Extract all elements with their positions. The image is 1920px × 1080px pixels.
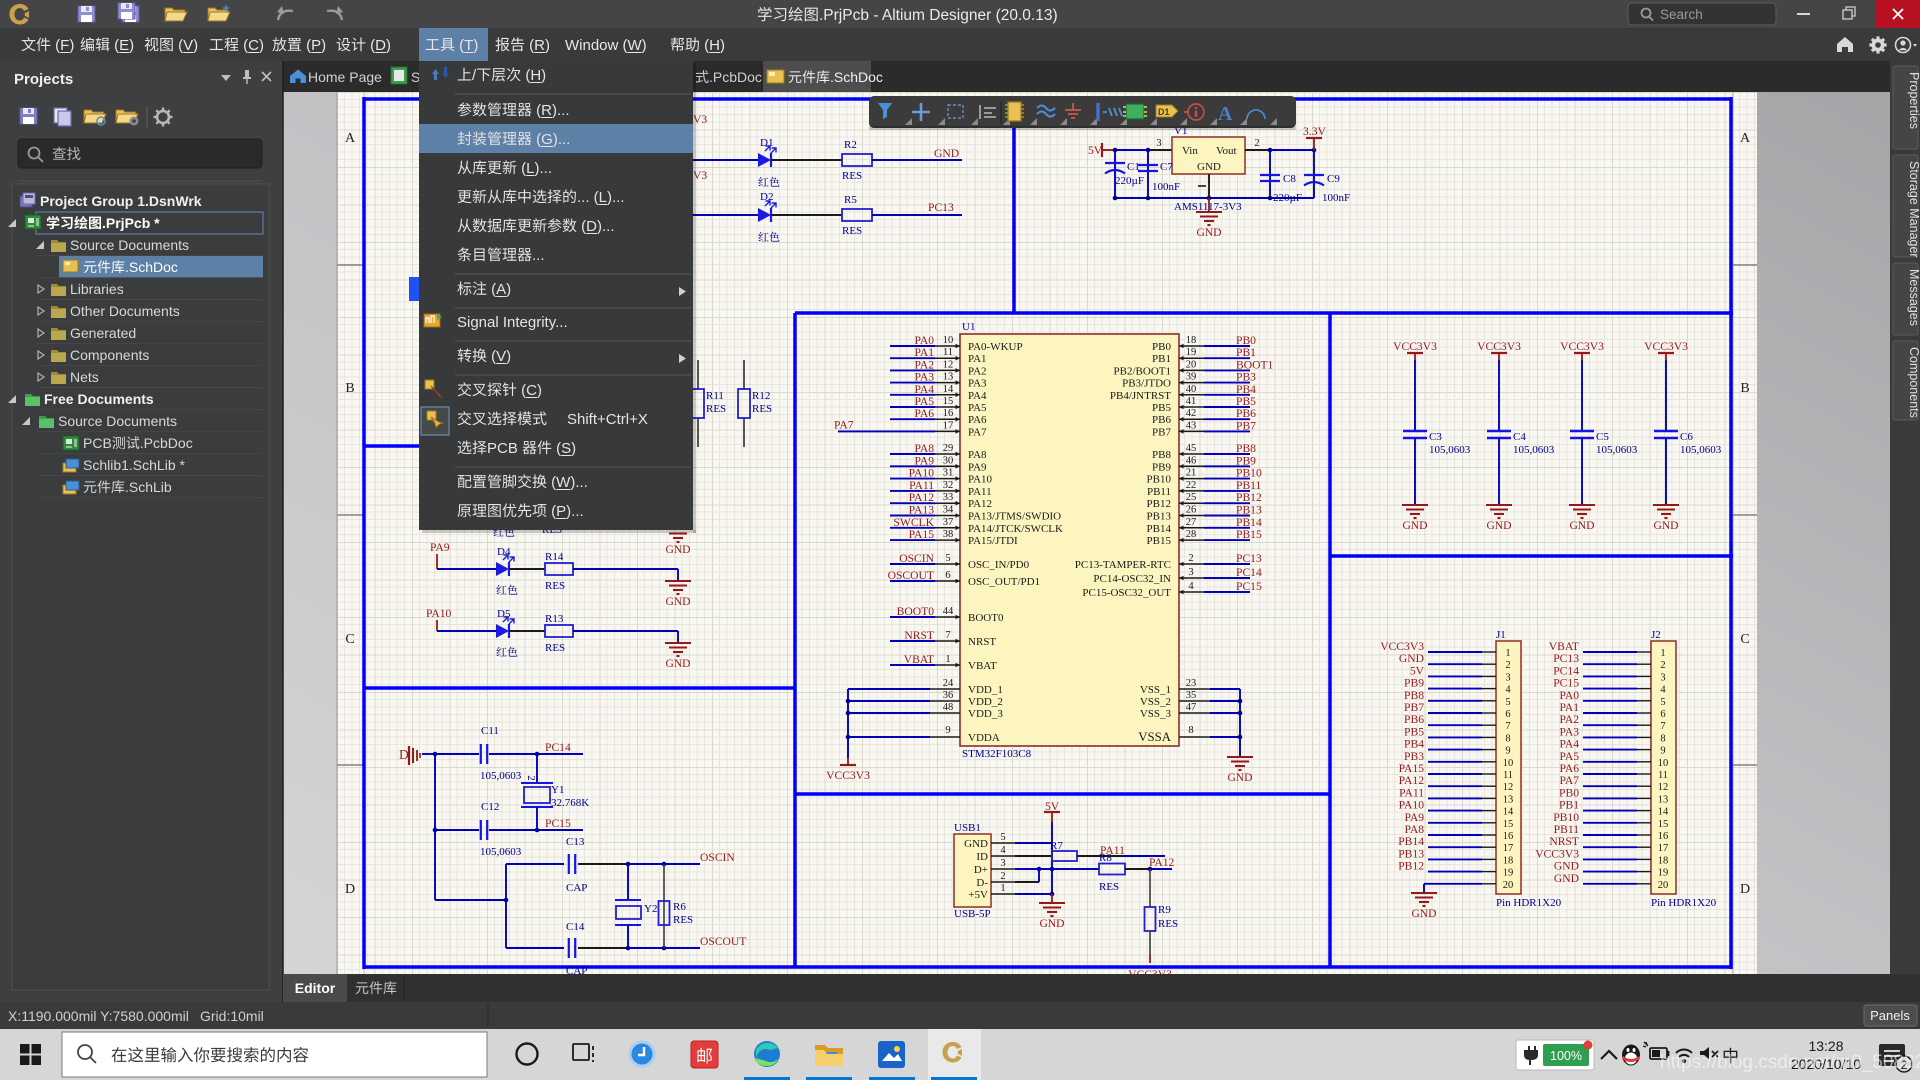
wire J2.8 bbox=[1583, 736, 1637, 738]
svg-text:2: 2 bbox=[1660, 660, 1665, 671]
svg-text:19: 19 bbox=[1186, 347, 1197, 358]
dropdown underline bbox=[556, 518, 566, 520]
stub J2.20 bbox=[1637, 883, 1651, 885]
tree icon dsnwrk bbox=[20, 193, 35, 207]
svg-text:3: 3 bbox=[1505, 672, 1510, 683]
svg-text:Signal Integrity...: Signal Integrity... bbox=[457, 314, 568, 331]
svg-text:PB10: PB10 bbox=[1236, 467, 1262, 480]
svg-text:GND: GND bbox=[1486, 519, 1511, 532]
svg-text:Components: Components bbox=[70, 347, 149, 363]
svg-text:7: 7 bbox=[945, 630, 950, 641]
svg-text:(P): (P) bbox=[302, 37, 326, 54]
svg-text:J1: J1 bbox=[1496, 629, 1506, 641]
wire to C7/Vin bbox=[1115, 149, 1147, 151]
y2 plate top bbox=[615, 899, 641, 901]
wire J2.14 bbox=[1583, 810, 1637, 812]
btn restore bbox=[1843, 10, 1852, 19]
stub J1.9 bbox=[1482, 749, 1496, 751]
wire R14-GND bbox=[573, 568, 678, 570]
svg-text:VCC3V3: VCC3V3 bbox=[1535, 847, 1579, 860]
svg-text:(W)...: (W)... bbox=[547, 474, 588, 491]
svg-text:OSCOUT: OSCOUT bbox=[700, 935, 746, 948]
svg-text:PA13/JTMS/SWDIO: PA13/JTMS/SWDIO bbox=[968, 511, 1061, 523]
svg-text:(F): (F) bbox=[51, 37, 74, 54]
tree icon folder generated bbox=[51, 328, 66, 340]
wire D- up bbox=[1038, 869, 1040, 882]
document tab bar bbox=[283, 61, 1890, 92]
ground C6 bbox=[1653, 504, 1679, 506]
pin USB D- bbox=[991, 881, 1015, 883]
wire R5-PC13 bbox=[872, 214, 962, 216]
svg-text:GND: GND bbox=[934, 147, 959, 160]
svg-text:PA2: PA2 bbox=[914, 358, 934, 371]
svg-text:R9: R9 bbox=[1158, 904, 1171, 916]
svg-text:A: A bbox=[345, 131, 356, 146]
dropdown separator bbox=[455, 273, 691, 275]
dropdown underline bbox=[541, 117, 552, 119]
pin PC15 bbox=[1179, 591, 1204, 593]
svg-text:PA7: PA7 bbox=[834, 418, 854, 431]
dropdown separator bbox=[455, 307, 691, 309]
menu 文件 (F) bbox=[22, 37, 36, 51]
pin OSC_OUT bbox=[935, 580, 960, 582]
capacitor C12 bbox=[480, 820, 482, 840]
svg-text:34: 34 bbox=[943, 505, 954, 516]
svg-text:PA8: PA8 bbox=[1404, 823, 1424, 836]
ground D5 bbox=[665, 642, 691, 644]
margin tick left bbox=[337, 264, 364, 266]
taskbar edge bbox=[754, 1041, 780, 1067]
svg-text:.PcbDoc: .PcbDoc bbox=[709, 69, 762, 85]
tool select rect bbox=[948, 105, 963, 118]
capacitor C6 bbox=[1654, 430, 1678, 432]
LED D1 bbox=[758, 153, 771, 167]
svg-text:C14: C14 bbox=[566, 921, 585, 933]
svg-text:25: 25 bbox=[1186, 492, 1197, 503]
pin PB group2 PB11 bbox=[1179, 490, 1204, 492]
svg-text:(D): (D) bbox=[366, 37, 391, 54]
projects panel bbox=[0, 61, 283, 1002]
wire OSCIN bbox=[628, 863, 700, 865]
pin PA group2 PA15/JTDI bbox=[935, 539, 960, 541]
svg-text:37: 37 bbox=[943, 517, 954, 528]
bottom tab sep bbox=[403, 977, 405, 999]
tool place wire bbox=[1037, 106, 1055, 117]
taskbar underline bbox=[869, 1077, 915, 1080]
menu underline bbox=[119, 52, 129, 54]
svg-text:21: 21 bbox=[1186, 468, 1197, 479]
wire J1.9 bbox=[1428, 749, 1482, 751]
svg-text:3: 3 bbox=[1000, 858, 1005, 869]
stub J1.3 bbox=[1482, 675, 1496, 677]
wire to gnd sym bbox=[1208, 198, 1210, 212]
resistor R11 bbox=[692, 389, 704, 418]
svg-text:220µF: 220µF bbox=[1115, 175, 1144, 187]
svg-text:Vin: Vin bbox=[1182, 145, 1198, 157]
wire Vout to 3.3V bbox=[1270, 149, 1314, 151]
svg-text:C5: C5 bbox=[1596, 431, 1609, 443]
svg-text:10: 10 bbox=[1503, 758, 1514, 769]
wire divider usb top bbox=[795, 792, 1330, 796]
wire J2.1 bbox=[1583, 651, 1637, 653]
stub J2.4 bbox=[1637, 688, 1651, 690]
svg-text:PA4: PA4 bbox=[968, 390, 987, 402]
svg-text:PB8: PB8 bbox=[1404, 689, 1424, 702]
svg-text:2: 2 bbox=[1254, 138, 1259, 149]
svg-text:BOOT0: BOOT0 bbox=[897, 605, 935, 618]
wire PA12 bbox=[1150, 868, 1172, 870]
svg-text:3: 3 bbox=[1188, 567, 1193, 578]
svg-text:Pin HDR1X20: Pin HDR1X20 bbox=[1496, 897, 1562, 909]
svg-text:PB0: PB0 bbox=[1152, 341, 1171, 353]
svg-text:3: 3 bbox=[1660, 672, 1665, 683]
sheet edge line bbox=[336, 92, 338, 974]
svg-text:PA5: PA5 bbox=[968, 402, 987, 414]
svg-text:PA12: PA12 bbox=[909, 491, 935, 504]
stub gnd usb bbox=[1051, 894, 1053, 903]
svg-text:PC14: PC14 bbox=[1553, 664, 1579, 677]
svg-text:PB5: PB5 bbox=[1152, 402, 1171, 414]
status sep bbox=[487, 1004, 489, 1027]
wire usb D- bbox=[1015, 881, 1039, 883]
pin VDD_1 bbox=[930, 688, 960, 690]
svg-text:10: 10 bbox=[943, 335, 954, 346]
menu underline bbox=[709, 52, 720, 54]
svg-text:20: 20 bbox=[1658, 880, 1669, 891]
wires VSS rail bbox=[1210, 688, 1240, 690]
svg-text:PA7: PA7 bbox=[968, 426, 987, 438]
wire J2.12 bbox=[1583, 785, 1637, 787]
wire J1.20 bbox=[1424, 883, 1482, 885]
svg-text:R2: R2 bbox=[844, 139, 857, 151]
svg-text:R6: R6 bbox=[673, 901, 686, 913]
pin VSSA bbox=[1179, 736, 1210, 738]
right tab Storage Manager bg bbox=[1893, 155, 1918, 257]
pin PA group1 PA4 bbox=[935, 394, 960, 396]
icon redo bbox=[327, 11, 342, 20]
wire divider top-middle bbox=[1012, 99, 1016, 313]
svg-text:(A): (A) bbox=[487, 281, 511, 298]
dropdown highlight bbox=[419, 124, 693, 153]
stub J2.2 bbox=[1637, 663, 1651, 665]
junctions VSS bbox=[1238, 699, 1243, 704]
taskbar task view bbox=[573, 1044, 593, 1062]
panel search icon bbox=[29, 148, 40, 159]
svg-text:.PrjPcb *: .PrjPcb * bbox=[102, 215, 160, 231]
tool no-erc bbox=[1188, 104, 1204, 120]
stub J1.17 bbox=[1482, 846, 1496, 848]
floating toolbar bg bbox=[869, 96, 1296, 128]
panel close bbox=[262, 72, 271, 81]
svg-text:8: 8 bbox=[1660, 733, 1665, 744]
svg-text:1: 1 bbox=[1505, 648, 1510, 659]
taskbar underline bbox=[931, 1077, 977, 1080]
svg-text:Properties: Properties bbox=[1907, 72, 1920, 129]
tray wifi bbox=[1676, 1050, 1692, 1063]
svg-text:PA9: PA9 bbox=[968, 461, 987, 473]
svg-text:VDDA: VDDA bbox=[968, 732, 1000, 744]
window title bbox=[758, 7, 772, 21]
svg-text:RES: RES bbox=[752, 403, 772, 415]
svg-text:PA0-WKUP: PA0-WKUP bbox=[968, 341, 1023, 353]
pin PB group2 PB8 bbox=[1179, 453, 1204, 455]
svg-text:7: 7 bbox=[1660, 721, 1665, 732]
wire to PC14 bbox=[537, 753, 583, 755]
dropdown item 从数据库更新参数 bbox=[458, 219, 472, 232]
svg-text:D1: D1 bbox=[760, 137, 773, 149]
tray qq bbox=[1622, 1045, 1640, 1066]
margin tick left bbox=[337, 764, 364, 766]
dropdown item 上/下层次 bbox=[458, 68, 471, 81]
wire D2 anode bbox=[693, 214, 758, 216]
tool probe bbox=[1096, 103, 1100, 121]
svg-text:15: 15 bbox=[1658, 819, 1669, 830]
svg-text:12: 12 bbox=[943, 359, 954, 370]
junction y1 top bbox=[535, 752, 540, 757]
tool move bbox=[912, 103, 930, 121]
svg-text:...: ... bbox=[532, 247, 545, 264]
wire R7 right bbox=[1077, 855, 1122, 857]
stub J2.16 bbox=[1637, 834, 1651, 836]
svg-text:PB11: PB11 bbox=[1554, 823, 1580, 836]
wire J1.11 bbox=[1428, 773, 1482, 775]
stub PA9 bbox=[436, 554, 438, 569]
pin VSS_2 bbox=[1179, 700, 1210, 702]
wire 5V red bbox=[1102, 149, 1115, 151]
bottom tab bar bbox=[283, 974, 1920, 1002]
stub J1.2 bbox=[1482, 663, 1496, 665]
svg-text:PB6: PB6 bbox=[1236, 407, 1256, 420]
tree expander prj bbox=[8, 219, 16, 227]
svg-text:Other Documents: Other Documents bbox=[70, 303, 180, 319]
svg-text:PB6: PB6 bbox=[1404, 713, 1424, 726]
svg-text:D: D bbox=[399, 747, 409, 762]
icon home tab bbox=[290, 70, 306, 84]
svg-text:16: 16 bbox=[1503, 831, 1514, 842]
svg-text:R13: R13 bbox=[545, 613, 564, 625]
pin PB group1 PB4/JNTRST bbox=[1179, 394, 1204, 396]
wire divider left y688 bbox=[364, 686, 795, 690]
wire OSCOUT bbox=[628, 947, 700, 949]
wire divider vertical x1330 bbox=[1328, 313, 1332, 967]
svg-text:Components: Components bbox=[1907, 347, 1920, 418]
pin PB group2 PB12 bbox=[1179, 502, 1204, 504]
svg-text:44: 44 bbox=[943, 606, 954, 617]
tree focus rect bbox=[36, 212, 263, 234]
wire J2.20 bbox=[1583, 883, 1637, 885]
svg-text:PA10: PA10 bbox=[968, 474, 993, 486]
pin PB group2 PB9 bbox=[1179, 465, 1204, 467]
wire J2.10 bbox=[1583, 761, 1637, 763]
stub J2.12 bbox=[1637, 785, 1651, 787]
stub J2.19 bbox=[1637, 871, 1651, 873]
taskbar photos bbox=[878, 1041, 905, 1068]
pin PA group2 PA8 bbox=[935, 453, 960, 455]
svg-text:PB9: PB9 bbox=[1236, 454, 1256, 467]
pin VDD_3 bbox=[930, 712, 960, 714]
panel search box bbox=[18, 139, 262, 168]
svg-text:PB7: PB7 bbox=[1404, 701, 1424, 714]
svg-text:PB0: PB0 bbox=[1236, 334, 1256, 347]
svg-text:GND: GND bbox=[1411, 907, 1436, 920]
svg-text:26: 26 bbox=[1186, 505, 1197, 516]
svg-text:GND: GND bbox=[1554, 872, 1579, 885]
svg-text:RES: RES bbox=[1099, 881, 1119, 893]
svg-text:GND: GND bbox=[1569, 519, 1594, 532]
wire J2.7 bbox=[1583, 724, 1637, 726]
junctions OSCOUT bbox=[626, 946, 631, 951]
dropdown item 标注 bbox=[457, 281, 471, 295]
stub J2.17 bbox=[1637, 846, 1651, 848]
svg-text:18: 18 bbox=[1658, 855, 1669, 866]
svg-text:VBAT: VBAT bbox=[904, 653, 934, 666]
svg-text:R12: R12 bbox=[752, 390, 770, 402]
svg-text:VDD_2: VDD_2 bbox=[968, 696, 1003, 708]
wire J2.6 bbox=[1583, 712, 1637, 714]
label D5 red bbox=[496, 647, 506, 656]
ground C3 bbox=[1402, 504, 1428, 506]
svg-text:5V: 5V bbox=[1410, 664, 1425, 677]
wire D2-R5 bbox=[771, 214, 842, 216]
tree icon folder components bbox=[51, 350, 66, 362]
svg-text:PCB: PCB bbox=[487, 440, 522, 457]
pin VBAT bbox=[935, 664, 960, 666]
stub J2.11 bbox=[1637, 773, 1651, 775]
svg-text:Source Documents: Source Documents bbox=[70, 237, 189, 253]
svg-text:BOOT0: BOOT0 bbox=[968, 612, 1004, 624]
wire divider row2 top bbox=[795, 311, 1733, 315]
svg-text:VCC3V3: VCC3V3 bbox=[1380, 640, 1424, 653]
svg-text:PA6: PA6 bbox=[1559, 762, 1579, 775]
wire VSS vertical bbox=[1239, 689, 1241, 757]
dropdown underline bbox=[586, 233, 597, 235]
svg-text:RES: RES bbox=[706, 403, 726, 415]
svg-text:19: 19 bbox=[1658, 868, 1669, 879]
icon user bbox=[1896, 38, 1911, 53]
svg-text:X:1190.000mil Y:7580.000mil: X:1190.000mil Y:7580.000mil bbox=[8, 1008, 189, 1024]
title bar bbox=[0, 0, 1920, 28]
svg-text:5V: 5V bbox=[1088, 144, 1103, 157]
tree row schdoc bbox=[84, 261, 97, 273]
dropdown icon cross probe bbox=[425, 380, 442, 398]
resistor R12 bbox=[738, 389, 750, 418]
svg-text:17: 17 bbox=[1658, 843, 1669, 854]
svg-text:Home Page: Home Page bbox=[308, 69, 382, 85]
icon altium logo bbox=[10, 4, 30, 25]
svg-text:16: 16 bbox=[943, 408, 954, 419]
svg-text:PC13: PC13 bbox=[1236, 552, 1262, 565]
stub J1.15 bbox=[1482, 822, 1496, 824]
dropdown item 条目管理器... bbox=[458, 247, 472, 261]
wire J1.3 bbox=[1428, 675, 1482, 677]
wire R9 bottom bbox=[1149, 931, 1151, 955]
svg-text:(H): (H) bbox=[700, 37, 725, 54]
wire C14-OSCOUT bbox=[578, 947, 628, 949]
wire J1.2 bbox=[1428, 663, 1482, 665]
wire down gnd D5 bbox=[677, 631, 679, 643]
svg-text:OSCOUT: OSCOUT bbox=[888, 569, 934, 582]
svg-text:PB0: PB0 bbox=[1559, 786, 1579, 799]
svg-text:4: 4 bbox=[1188, 581, 1194, 592]
svg-text:2: 2 bbox=[525, 775, 537, 781]
wire to C14 bbox=[506, 947, 564, 949]
capacitor C7 bbox=[1138, 164, 1158, 166]
wire divider right y556 bbox=[1330, 554, 1733, 558]
svg-text:B: B bbox=[345, 381, 354, 396]
svg-text:STM32F103C8: STM32F103C8 bbox=[962, 748, 1032, 760]
svg-text:2: 2 bbox=[1000, 871, 1005, 882]
wire J2.2 bbox=[1583, 663, 1637, 665]
svg-text:PA13: PA13 bbox=[909, 504, 935, 517]
tray speaker muted bbox=[1700, 1047, 1709, 1059]
svg-text:(C): (C) bbox=[239, 37, 264, 54]
svg-text:PC15: PC15 bbox=[545, 817, 571, 830]
svg-text:PB12: PB12 bbox=[1147, 498, 1171, 510]
wire left vertical c11-c12 bbox=[434, 754, 436, 830]
svg-text:PA12: PA12 bbox=[968, 498, 992, 510]
wire top C6 bbox=[1665, 360, 1667, 431]
tray badge bbox=[1896, 1056, 1912, 1072]
LED D4 bbox=[496, 562, 509, 576]
svg-text:GND: GND bbox=[1197, 161, 1221, 173]
tab active bg bbox=[763, 61, 871, 92]
svg-text:(H): (H) bbox=[521, 67, 546, 84]
ground ams bbox=[1196, 211, 1222, 213]
wire to R8 bbox=[1039, 868, 1099, 870]
pin PB group1 PB2/BOOT1 bbox=[1179, 369, 1204, 371]
dropdown menu bg bbox=[419, 61, 693, 530]
svg-text:.PrjPcb - Altium Designer (20.: .PrjPcb - Altium Designer (20.0.13) bbox=[819, 7, 1058, 24]
pin Vout stub bbox=[1245, 149, 1270, 151]
wires C8 C9 vertical bbox=[1269, 150, 1271, 198]
wire J2.5 bbox=[1583, 700, 1637, 702]
svg-text:PB14: PB14 bbox=[1398, 835, 1424, 848]
capacitor C11 bbox=[480, 744, 482, 764]
stub J1.4 bbox=[1482, 688, 1496, 690]
svg-text:13: 13 bbox=[1503, 794, 1514, 805]
svg-text:PA15: PA15 bbox=[1399, 762, 1425, 775]
icon save all bbox=[122, 6, 139, 22]
wires VDD rail bbox=[848, 688, 930, 690]
tool align bbox=[980, 105, 996, 119]
header J1 body bbox=[1496, 641, 1521, 894]
dropdown submenu arrow 1 bbox=[679, 287, 686, 296]
sheet margin line right bbox=[1732, 92, 1734, 974]
panel search text bbox=[53, 147, 66, 160]
tab schdoc active bbox=[789, 71, 802, 83]
wire PA9-D4 bbox=[437, 568, 496, 570]
editor tab bg bbox=[283, 974, 347, 1002]
svg-text:Shift+Ctrl+X: Shift+Ctrl+X bbox=[567, 411, 648, 428]
svg-text:PA7: PA7 bbox=[1559, 774, 1579, 787]
wire D1-R2 bbox=[771, 159, 842, 161]
svg-text:PC14: PC14 bbox=[1236, 566, 1262, 579]
icon undo bbox=[278, 11, 293, 20]
toolbar sep bbox=[1000, 101, 1002, 124]
pin USB +5V bbox=[991, 893, 1015, 895]
dropdown item 选择PCB bbox=[458, 440, 472, 454]
svg-text:OSCIN: OSCIN bbox=[899, 552, 934, 565]
svg-text:12: 12 bbox=[1658, 782, 1669, 793]
svg-text:VBAT: VBAT bbox=[1549, 640, 1579, 653]
stub J1.18 bbox=[1482, 858, 1496, 860]
svg-text:.SchDoc: .SchDoc bbox=[125, 259, 178, 275]
svg-text:C3: C3 bbox=[1429, 431, 1442, 443]
svg-text:... (L)...: ... (L)... bbox=[577, 189, 625, 206]
pin PA group1 PA7 bbox=[935, 430, 960, 432]
ground usb bbox=[1039, 902, 1065, 904]
svg-text:PB6: PB6 bbox=[1152, 414, 1171, 426]
